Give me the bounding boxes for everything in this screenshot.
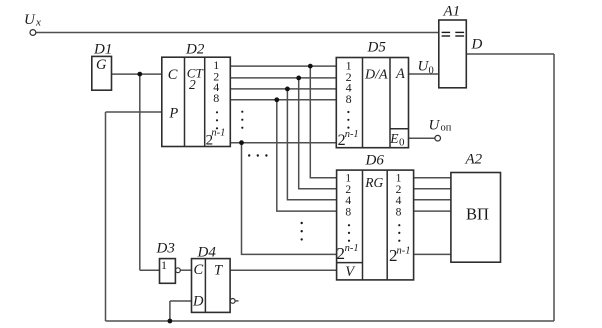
svg-text:D: D <box>192 293 204 309</box>
svg-text:1: 1 <box>161 258 167 272</box>
svg-text:D: D <box>471 37 483 53</box>
svg-text:D5: D5 <box>367 40 387 56</box>
svg-text:D6: D6 <box>365 153 385 169</box>
svg-text:оп: оп <box>441 123 452 134</box>
svg-text:0: 0 <box>429 66 434 77</box>
svg-text:U: U <box>24 12 36 28</box>
svg-text:D4: D4 <box>197 245 217 261</box>
svg-text:n-1: n-1 <box>397 246 411 257</box>
svg-text:D1: D1 <box>93 42 112 58</box>
svg-text:4: 4 <box>345 195 351 207</box>
svg-text:C: C <box>194 262 204 278</box>
svg-text:T: T <box>214 262 223 278</box>
svg-text:A2: A2 <box>465 152 483 168</box>
svg-text:RG: RG <box>364 175 383 190</box>
svg-text:P: P <box>168 105 178 121</box>
svg-text:x: x <box>35 16 41 28</box>
svg-text:0: 0 <box>399 137 405 149</box>
svg-text:8: 8 <box>396 206 402 218</box>
svg-text:2: 2 <box>189 77 196 92</box>
svg-text:D/A: D/A <box>364 67 388 82</box>
svg-text:ВП: ВП <box>466 204 489 223</box>
svg-text:8: 8 <box>213 91 219 105</box>
svg-text:A: A <box>395 66 405 82</box>
svg-text:n-1: n-1 <box>211 128 225 139</box>
svg-text:G: G <box>96 57 107 73</box>
svg-text:n-1: n-1 <box>345 129 359 140</box>
svg-text:1: 1 <box>396 172 402 184</box>
svg-text:E: E <box>389 131 399 146</box>
svg-text:A1: A1 <box>443 4 461 20</box>
svg-text:8: 8 <box>346 92 352 106</box>
svg-text:n-1: n-1 <box>345 243 359 254</box>
svg-text:C: C <box>168 67 178 83</box>
svg-text:U: U <box>429 118 441 134</box>
svg-text:8: 8 <box>345 206 351 218</box>
svg-text:D3: D3 <box>156 241 175 257</box>
svg-text:4: 4 <box>396 195 402 207</box>
svg-text:D2: D2 <box>185 42 205 58</box>
svg-text:1: 1 <box>345 172 351 184</box>
